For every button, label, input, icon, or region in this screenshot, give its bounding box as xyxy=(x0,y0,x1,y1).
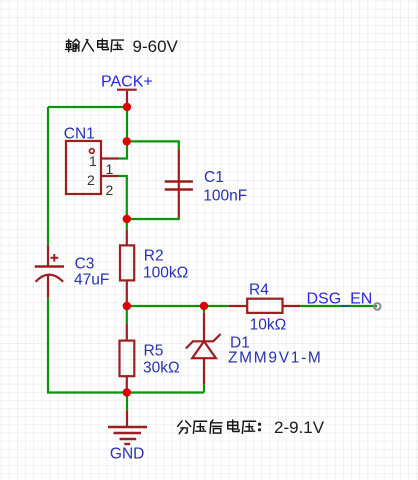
svg-text:2: 2 xyxy=(106,182,114,198)
svg-text:2-9.1V: 2-9.1V xyxy=(274,418,325,437)
svg-text:R4: R4 xyxy=(249,282,269,299)
svg-text:C1: C1 xyxy=(204,169,224,186)
svg-text:10kΩ: 10kΩ xyxy=(250,317,287,334)
svg-text:1: 1 xyxy=(106,161,114,177)
svg-text:2: 2 xyxy=(87,172,95,188)
svg-text:C3: C3 xyxy=(75,256,95,273)
svg-text:100kΩ: 100kΩ xyxy=(143,265,188,282)
svg-text:R5: R5 xyxy=(144,343,164,360)
svg-text:R2: R2 xyxy=(144,248,164,265)
svg-text:30kΩ: 30kΩ xyxy=(143,360,180,377)
svg-text:GND: GND xyxy=(110,446,144,463)
svg-text:47uF: 47uF xyxy=(74,272,109,289)
svg-text:DSG_EN: DSG_EN xyxy=(307,291,373,308)
svg-text:CN1: CN1 xyxy=(64,126,95,143)
svg-text:1: 1 xyxy=(89,153,97,169)
svg-text:100nF: 100nF xyxy=(203,188,247,205)
svg-text:9-60V: 9-60V xyxy=(133,37,179,56)
svg-text:ZMM9V1-M: ZMM9V1-M xyxy=(228,350,323,367)
svg-text:PACK+: PACK+ xyxy=(101,74,153,91)
